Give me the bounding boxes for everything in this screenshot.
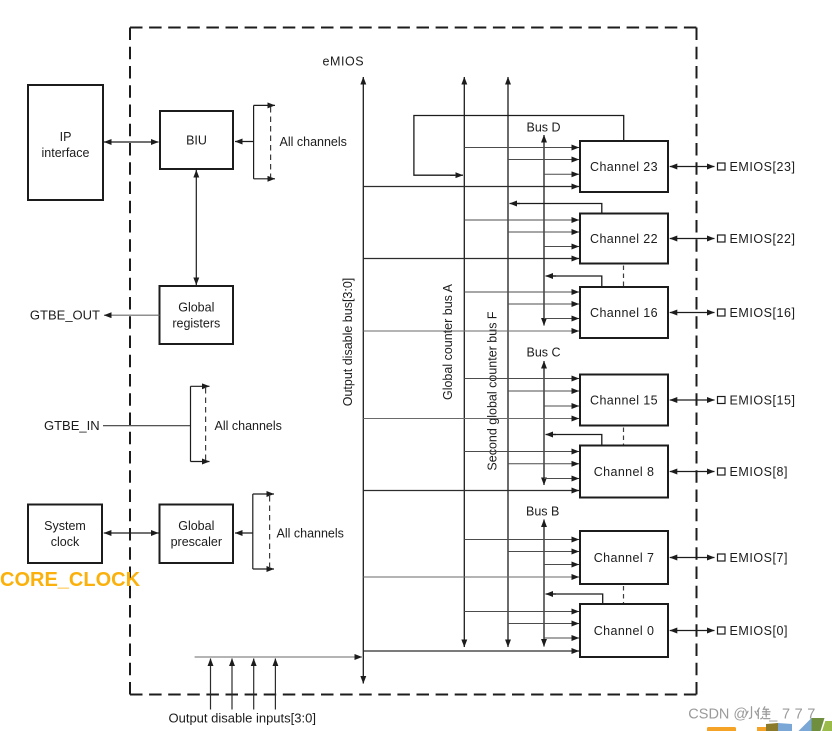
block IP interface — [28, 85, 103, 200]
svg-text:Output disable bus[3:0]: Output disable bus[3:0] — [341, 278, 355, 407]
svg-text:CSDN @: CSDN @ — [688, 707, 748, 723]
svg-text:GTBE_OUT: GTBE_OUT — [30, 308, 100, 323]
svg-text:All channels: All channels — [215, 419, 282, 433]
svg-text:registers: registers — [172, 317, 220, 331]
svg-text:System: System — [44, 519, 86, 533]
pin EMIOS[8] — [670, 465, 788, 479]
block BIU — [160, 111, 233, 169]
dashed continuation between Channel 22 and Channel 16 — [623, 266, 625, 287]
svg-text:Channel 16: Channel 16 — [590, 306, 658, 320]
wire Channel 0 output to bus B — [548, 594, 603, 604]
pin EMIOS[15] — [670, 394, 796, 408]
svg-text:Bus C: Bus C — [527, 346, 561, 360]
block Channel 0 — [580, 604, 668, 657]
svg-text:Global counter bus A: Global counter bus A — [441, 283, 455, 400]
bus Global counter bus A vertical — [463, 77, 465, 647]
svg-text:Second global counter bus F: Second global counter bus F — [486, 311, 500, 470]
wire Global prescaler to all-channels bracket — [235, 532, 253, 534]
block Global registers — [160, 286, 234, 344]
svg-text:BIU: BIU — [186, 134, 207, 148]
wire BIU to Global registers bidirectional — [195, 170, 197, 285]
svg-text:eMIOS: eMIOS — [323, 55, 365, 69]
pin EMIOS[7] — [670, 551, 788, 565]
bus C vertical — [543, 361, 545, 485]
svg-text:Channel 23: Channel 23 — [590, 160, 658, 174]
wires Channel 23 inputs — [363, 148, 579, 187]
all-channels bracket at BIU — [254, 105, 347, 178]
watermark CSDN — [688, 707, 820, 723]
wire output disable input arrow 1 — [253, 659, 255, 710]
svg-text:prescaler: prescaler — [171, 535, 222, 549]
wire Channel 8 output to bus C — [548, 435, 602, 446]
svg-text:Bus D: Bus D — [527, 121, 561, 135]
svg-text:Channel 15: Channel 15 — [590, 394, 658, 408]
wires Channel 22 inputs — [363, 220, 579, 259]
svg-text:Channel 22: Channel 22 — [590, 232, 658, 246]
dashed continuation between Channel 15 and Channel 8 — [623, 428, 625, 445]
bus Second global counter bus F vertical — [507, 77, 509, 647]
eMIOS module dashed boundary — [130, 28, 697, 695]
block Channel 23 — [580, 141, 668, 192]
svg-text:clock: clock — [51, 535, 80, 549]
wire output disable input arrow 2 — [231, 659, 233, 710]
block Channel 15 — [580, 375, 668, 426]
block Channel 16 — [580, 287, 668, 338]
pin EMIOS[16] — [670, 306, 796, 320]
svg-text:Bus B: Bus B — [526, 505, 559, 519]
wires Channel 15 inputs — [363, 379, 579, 419]
wire output disable input arrow 0 — [274, 659, 276, 710]
svg-text:GTBE_IN: GTBE_IN — [44, 418, 100, 433]
wire GTBE_OUT from Global registers — [104, 314, 160, 316]
wires Channel 0 inputs — [363, 612, 579, 652]
svg-text:Channel 0: Channel 0 — [594, 624, 655, 638]
block Channel 7 — [580, 531, 668, 584]
svg-text:interface: interface — [42, 146, 90, 160]
wires Channel 8 inputs — [363, 452, 579, 491]
watermark logo shapes — [707, 718, 832, 731]
svg-text:Output disable inputs[3:0]: Output disable inputs[3:0] — [169, 711, 316, 726]
dashed continuation between Channel 7 and Channel 0 — [623, 586, 625, 603]
block System clock — [28, 505, 102, 564]
block Channel 22 — [580, 214, 668, 264]
svg-text:EMIOS[15]: EMIOS[15] — [730, 394, 796, 408]
svg-text:EMIOS[23]: EMIOS[23] — [730, 160, 796, 174]
svg-text:IP: IP — [60, 130, 72, 144]
svg-text:EMIOS[0]: EMIOS[0] — [730, 624, 789, 638]
wire Channel 22 output to bus F — [512, 204, 602, 214]
all-channels bracket at Global prescaler — [253, 494, 344, 569]
bus Output disable bus[3:0] vertical — [362, 77, 364, 684]
svg-text:EMIOS[22]: EMIOS[22] — [730, 232, 796, 246]
svg-text:Global: Global — [178, 301, 214, 315]
svg-text:EMIOS[16]: EMIOS[16] — [730, 306, 796, 320]
svg-text:Channel 8: Channel 8 — [594, 465, 655, 479]
block Channel 8 — [580, 446, 668, 498]
wire Output disable inputs horizontal into bus — [195, 656, 362, 658]
wire System clock to Global prescaler bidirectional — [104, 532, 159, 534]
wires Channel 7 inputs — [363, 540, 579, 578]
block Global prescaler — [160, 505, 234, 564]
pin EMIOS[0] — [670, 624, 788, 638]
wire GTBE_IN to bracket — [103, 425, 191, 427]
wire output disable input arrow 3 — [210, 659, 212, 710]
pin EMIOS[23] — [670, 160, 796, 174]
svg-text:EMIOS[8]: EMIOS[8] — [730, 465, 789, 479]
wires Channel 16 inputs — [363, 292, 579, 331]
svg-text:Channel 7: Channel 7 — [594, 551, 655, 565]
svg-text:CORE_CLOCK: CORE_CLOCK — [0, 569, 141, 591]
wire Channel 23 output loop to bus A — [414, 116, 624, 176]
bus D vertical — [543, 135, 545, 326]
wire Channel 16 output to bus D — [548, 276, 602, 287]
svg-text:Global: Global — [178, 519, 214, 533]
bus B vertical — [543, 520, 545, 647]
wire BIU to all-channels bracket — [235, 141, 254, 143]
svg-text:All channels: All channels — [280, 135, 347, 149]
svg-text:All channels: All channels — [277, 527, 344, 541]
svg-text:EMIOS[7]: EMIOS[7] — [730, 551, 789, 565]
pin EMIOS[22] — [670, 232, 796, 246]
wire IP interface to BIU bidirectional — [104, 141, 159, 143]
all-channels bracket at GTBE_IN — [191, 386, 282, 461]
